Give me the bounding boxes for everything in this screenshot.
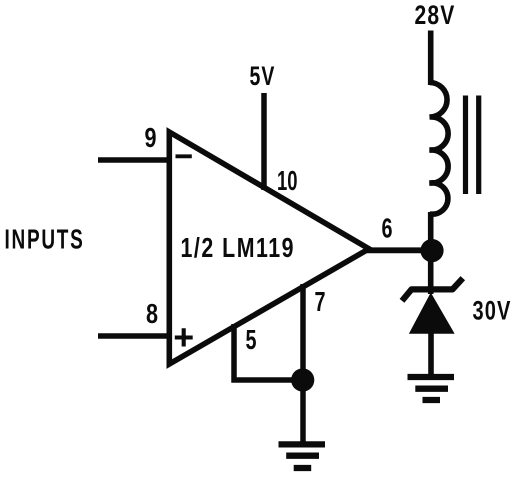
svg-text:7: 7 <box>315 286 326 317</box>
inductor core line 2 <box>476 96 481 195</box>
wire zener to ground <box>428 332 434 377</box>
ground symbol below zener <box>408 377 455 400</box>
wire pin 10 to 5V <box>261 93 267 190</box>
wire input pin 8 <box>98 333 172 339</box>
wire 28V to inductor <box>428 31 434 86</box>
wire pin 7 to ground <box>300 284 306 443</box>
wire pin 5 <box>234 324 302 380</box>
op-amp minus input marker <box>176 154 192 158</box>
svg-text:6: 6 <box>382 213 393 244</box>
op-amp U1 1/2 LM119 triangle <box>169 132 369 364</box>
inductor L1 winding <box>430 83 449 215</box>
svg-text:5: 5 <box>246 324 257 355</box>
wire inductor to output node <box>428 212 434 294</box>
svg-text:1/2 LM119: 1/2 LM119 <box>181 232 296 263</box>
svg-text:10: 10 <box>277 165 298 196</box>
svg-text:INPUTS: INPUTS <box>5 224 85 255</box>
wire output pin 6 <box>367 247 432 253</box>
wire input pin 9 <box>98 157 172 163</box>
ground symbol below pin 7 <box>279 444 326 468</box>
svg-text:28V: 28V <box>415 0 456 30</box>
svg-text:30V: 30V <box>473 296 512 326</box>
inductor core line 1 <box>463 96 468 195</box>
zener diode D1 cathode bar <box>402 278 463 301</box>
zener diode D1 anode triangle <box>410 294 454 334</box>
junction node pins 5-7 <box>291 368 314 391</box>
op-amp plus input marker <box>175 328 193 346</box>
junction node output <box>420 239 443 262</box>
svg-text:9: 9 <box>145 122 157 153</box>
svg-text:8: 8 <box>146 298 158 329</box>
svg-text:5V: 5V <box>250 61 276 91</box>
